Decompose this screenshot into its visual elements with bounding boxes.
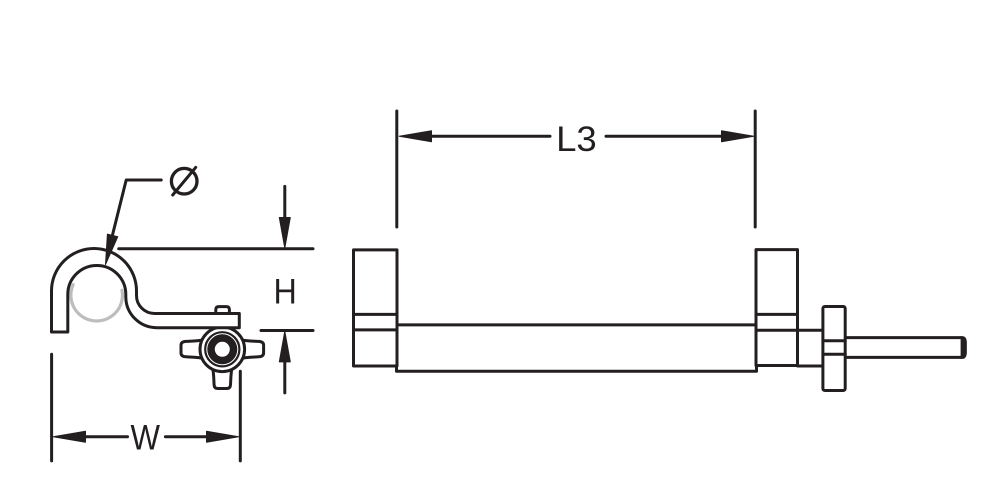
H bottom arrow shaft bbox=[283, 360, 286, 393]
threaded screw shaft bbox=[844, 338, 965, 358]
svg-text:L3: L3 bbox=[556, 118, 597, 158]
W left extension line bbox=[50, 354, 53, 461]
knob disc (side view) bbox=[823, 307, 845, 391]
left clamp block bbox=[354, 250, 398, 366]
leader arrowhead bbox=[106, 234, 118, 264]
right block lower internal line bbox=[756, 329, 798, 332]
screw tip black cap bbox=[961, 336, 967, 359]
H bottom arrowhead bbox=[279, 331, 290, 362]
disc upper internal line bbox=[823, 339, 845, 342]
right block upper internal line bbox=[756, 313, 798, 316]
L3 left arrowhead bbox=[399, 131, 431, 142]
W right extension line bbox=[239, 371, 242, 461]
knob boss circle bbox=[200, 327, 245, 372]
left block upper internal line bbox=[354, 313, 398, 316]
disc lower internal line bbox=[823, 353, 845, 356]
L3 dim line right shaft bbox=[606, 135, 722, 138]
left block lower internal line bbox=[354, 328, 398, 331]
W dim line right shaft bbox=[165, 435, 207, 438]
L3 right arrowhead bbox=[722, 131, 754, 142]
knob right wing bbox=[239, 340, 264, 359]
svg-text:W: W bbox=[130, 419, 160, 458]
knob black donut bbox=[211, 338, 234, 361]
L3 dim line left shaft bbox=[431, 135, 550, 138]
H top extension line bbox=[119, 247, 313, 250]
svg-text:H: H bbox=[274, 272, 297, 312]
L3 left extension line bbox=[395, 111, 398, 227]
W left arrowhead bbox=[53, 431, 85, 442]
H top arrowhead bbox=[279, 218, 290, 249]
knob inner ring bbox=[205, 332, 239, 366]
knob left wing bbox=[181, 340, 206, 359]
leader line for diameter bbox=[109, 180, 161, 249]
crossbar rod bbox=[397, 325, 757, 371]
pipe cross-section (gray circle) bbox=[71, 285, 123, 321]
knob top stud (upper wing of clamp knob) bbox=[216, 307, 230, 320]
diameter symbol slash bbox=[173, 167, 196, 195]
W right arrowhead bbox=[207, 431, 239, 442]
diameter symbol circle bbox=[171, 168, 197, 194]
H bottom extension line bbox=[261, 329, 313, 332]
W dim line left shaft bbox=[86, 435, 128, 438]
bushing between block and knob disc bbox=[798, 330, 824, 366]
right clamp block bbox=[756, 250, 798, 366]
H top arrow shaft bbox=[283, 186, 286, 220]
L3 right extension line bbox=[754, 111, 757, 227]
knob bottom wing bbox=[212, 365, 232, 389]
clamp hook and arm outline bbox=[52, 249, 240, 333]
